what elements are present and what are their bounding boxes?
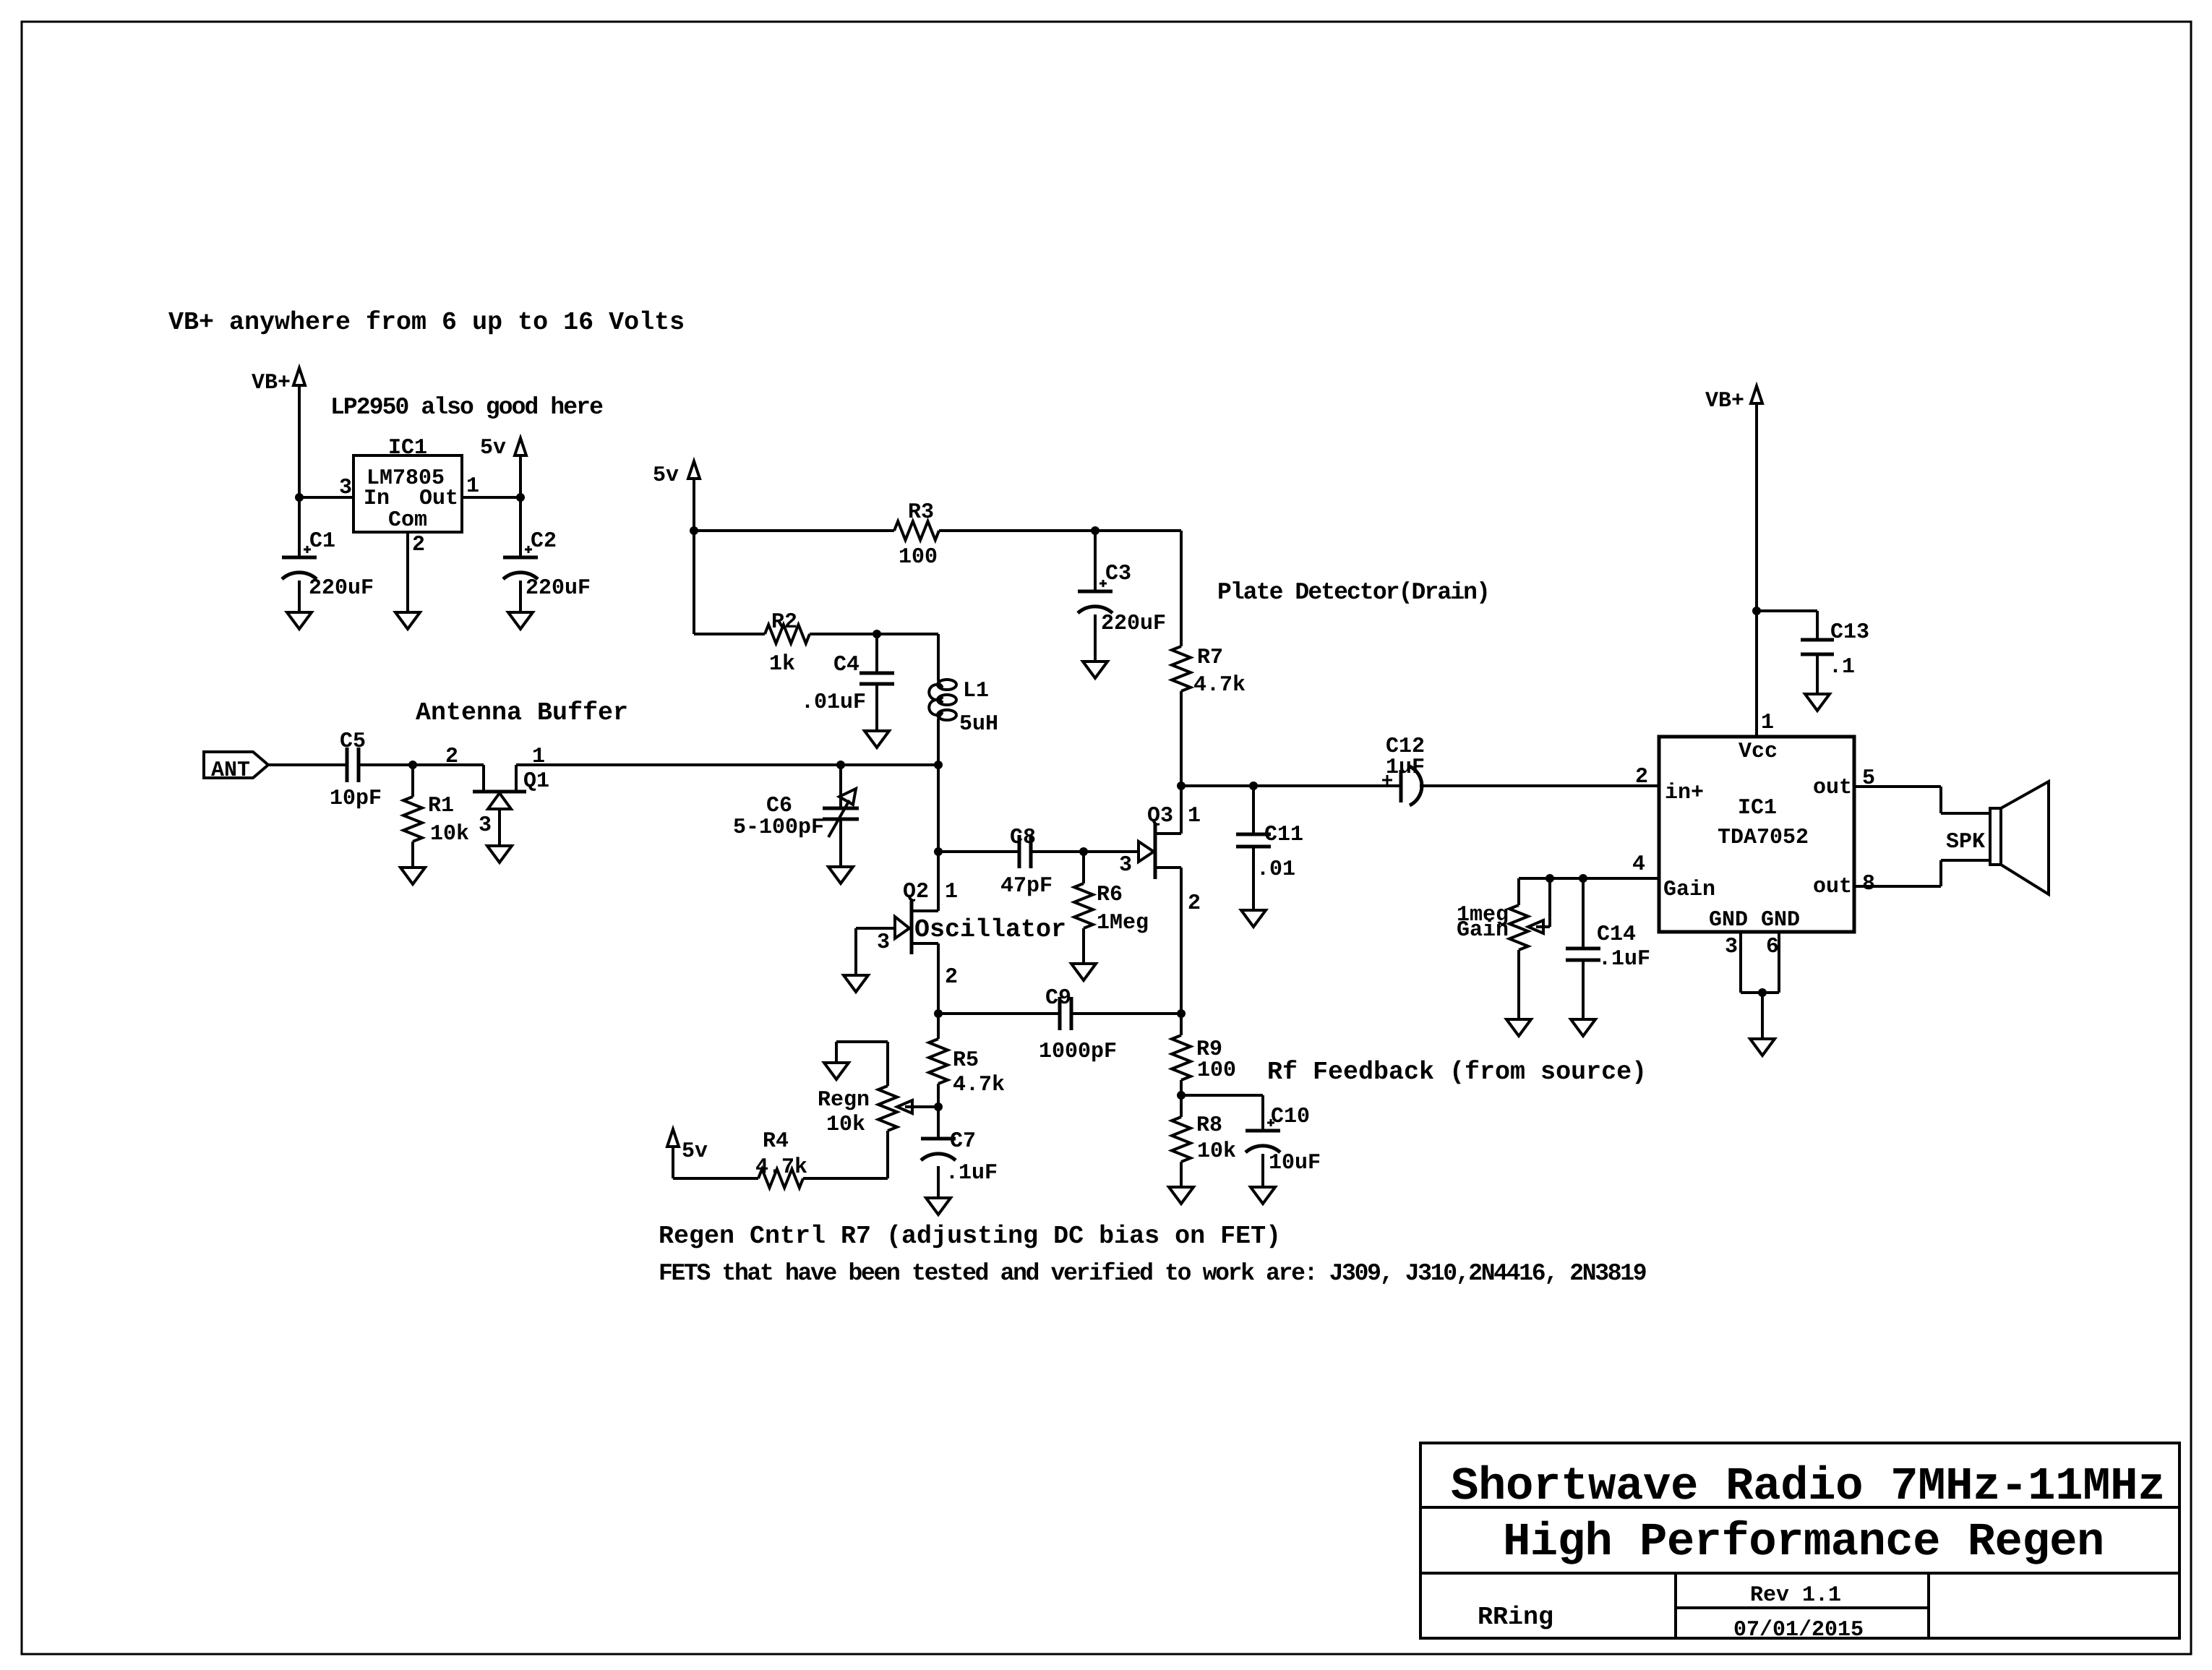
svg-text:5uH: 5uH — [959, 712, 998, 737]
svg-text:C11: C11 — [1264, 823, 1303, 847]
svg-text:LP2950 also good here: LP2950 also good here — [330, 394, 603, 421]
wire Q2 drain node to C8 — [938, 850, 1019, 853]
svg-text:Gain: Gain — [1457, 918, 1509, 943]
node: L1 / Q2 junction — [934, 761, 943, 769]
title block divider line 1 — [1420, 1506, 2179, 1509]
node: R8 / C10 junction — [1177, 1091, 1186, 1100]
node: R1 junction — [408, 761, 417, 769]
speaker SPK — [1990, 808, 2001, 865]
node: C3 junction — [1091, 526, 1099, 535]
power flag VB+ (regulator input) — [293, 368, 305, 385]
node: R6 junction — [1079, 847, 1088, 856]
wire out5 to speaker — [1854, 785, 1941, 788]
svg-text:5v: 5v — [682, 1139, 708, 1164]
wire Gain pin to pot/C14 — [1519, 877, 1659, 880]
svg-text:in+: in+ — [1665, 781, 1704, 805]
node: C13 junction — [1752, 607, 1761, 615]
svg-text:R6: R6 — [1097, 883, 1123, 907]
svg-text:5-100pF: 5-100pF — [733, 815, 824, 840]
svg-text:.1uF: .1uF — [946, 1161, 998, 1186]
svg-text:GND GND: GND GND — [1709, 908, 1800, 933]
svg-text:8: 8 — [1862, 872, 1875, 896]
wire C9 to R9 node — [1071, 1012, 1181, 1015]
capacitor C7 .1uF — [937, 1107, 940, 1139]
resistor R9 100 — [1180, 1014, 1183, 1035]
svg-text:.01: .01 — [1256, 857, 1295, 882]
ground below C14 — [1571, 1019, 1595, 1036]
svg-text:47pF: 47pF — [1000, 874, 1053, 899]
svg-text:C5: C5 — [340, 729, 366, 754]
node: wiper junction — [1546, 874, 1554, 883]
svg-text:Regen Cntrl R7 (adjusting DC b: Regen Cntrl R7 (adjusting DC bias on FET… — [659, 1222, 1281, 1251]
svg-text:C9: C9 — [1045, 986, 1071, 1011]
transistor Q1 — [482, 765, 485, 792]
svg-text:2: 2 — [445, 745, 458, 769]
svg-text:R7: R7 — [1197, 646, 1223, 670]
svg-text:6: 6 — [1766, 935, 1779, 959]
node: R9 top junction — [1177, 1009, 1186, 1018]
node: 5v rail junction — [690, 526, 698, 535]
ground below C1 — [287, 612, 312, 629]
potentiometer Regn 10k — [878, 1086, 897, 1131]
svg-text:R3: R3 — [908, 500, 934, 525]
svg-text:VB+: VB+ — [252, 371, 291, 395]
svg-text:07/01/2015: 07/01/2015 — [1733, 1618, 1864, 1643]
ground below R8 — [1169, 1187, 1193, 1204]
ground above Regn pot — [824, 1063, 849, 1079]
ground below R1 — [400, 868, 425, 884]
capacitor C8 47pF — [1018, 835, 1021, 868]
wire regulator Out to 5v node — [462, 496, 520, 499]
transistor Q2 — [910, 901, 914, 954]
node: Q2 source junction — [934, 1009, 943, 1018]
svg-text:IC1: IC1 — [388, 436, 427, 461]
node: Q2 gate / C8 junction — [934, 847, 943, 856]
svg-text:VB+: VB+ — [1705, 389, 1744, 414]
svg-text:Q1: Q1 — [523, 769, 549, 794]
svg-text:R5: R5 — [953, 1048, 979, 1073]
svg-text:SPK: SPK — [1946, 830, 1985, 855]
svg-text:RRing: RRing — [1478, 1603, 1553, 1632]
svg-text:100: 100 — [899, 545, 938, 570]
op-amp IC1 TDA7052 box — [1659, 737, 1854, 932]
svg-text:Shortwave Radio 7MHz-11MHz: Shortwave Radio 7MHz-11MHz — [1451, 1461, 2165, 1513]
svg-text:L1: L1 — [963, 679, 989, 703]
capacitor C4 .01uF — [875, 634, 878, 673]
wire C3 node to R7 top — [1095, 529, 1181, 532]
svg-text:Rf Feedback (from source): Rf Feedback (from source) — [1267, 1058, 1647, 1087]
svg-text:2: 2 — [1188, 891, 1201, 916]
svg-text:Q3: Q3 — [1147, 804, 1173, 828]
ground below C3 — [1083, 661, 1107, 678]
wire 5v down to R2 — [694, 633, 765, 635]
svg-text:Q2: Q2 — [903, 880, 929, 904]
node: C11 junction — [1249, 782, 1258, 790]
wire C12 to IC1 in+ — [1420, 784, 1659, 787]
svg-text:Antenna Buffer: Antenna Buffer — [416, 698, 628, 727]
wire C5 to Q1 gate — [359, 763, 484, 766]
title block vertical divider left — [1674, 1573, 1677, 1638]
wire Q2 source to C9 — [938, 1012, 1060, 1015]
ground below Q2 gate — [844, 975, 868, 992]
svg-text:1: 1 — [1761, 711, 1774, 735]
svg-text:3: 3 — [339, 476, 352, 500]
svg-text:10uF: 10uF — [1269, 1151, 1321, 1176]
svg-text:C13: C13 — [1830, 620, 1869, 645]
svg-text:VB+ anywhere from 6 up to 16 V: VB+ anywhere from 6 up to 16 Volts — [168, 308, 685, 337]
resistor R5 4.7k — [937, 1014, 940, 1039]
svg-text:Out: Out — [419, 487, 458, 511]
capacitor C12 1uF (coupling) — [1399, 770, 1403, 802]
svg-text:R2: R2 — [771, 610, 797, 635]
svg-text:IC1: IC1 — [1738, 796, 1777, 821]
svg-text:5: 5 — [1862, 766, 1875, 791]
wire R3 to C3 node — [939, 529, 1095, 532]
svg-text:C1: C1 — [309, 529, 335, 554]
svg-text:R1: R1 — [428, 794, 454, 818]
svg-text:TDA7052: TDA7052 — [1718, 826, 1809, 850]
svg-text:C3: C3 — [1105, 562, 1131, 586]
svg-text:1k: 1k — [769, 652, 795, 677]
capacitor C14 .1uF — [1582, 878, 1585, 949]
ground below C7 — [926, 1198, 951, 1215]
svg-text:out: out — [1813, 776, 1852, 800]
svg-text:5v: 5v — [480, 436, 506, 461]
svg-text:3: 3 — [479, 813, 492, 838]
svg-text:.1: .1 — [1829, 655, 1855, 680]
node: regulator output junction — [516, 493, 525, 502]
ground below Com pin — [395, 612, 420, 629]
wire node to C10 — [1181, 1094, 1263, 1097]
svg-text:FETS that have been tested and: FETS that have been tested and verified … — [659, 1260, 1646, 1287]
svg-text:C8: C8 — [1010, 826, 1036, 850]
svg-text:Regn: Regn — [818, 1088, 870, 1113]
svg-text:C4: C4 — [833, 653, 859, 677]
svg-text:C7: C7 — [950, 1129, 976, 1154]
svg-text:10k: 10k — [430, 822, 469, 847]
svg-text:C2: C2 — [531, 529, 557, 554]
svg-text:Rev 1.1: Rev 1.1 — [1750, 1583, 1841, 1608]
resistor R4 4.7k — [758, 1169, 803, 1188]
svg-text:4.7k: 4.7k — [755, 1155, 807, 1180]
ground below Q1 source — [487, 846, 512, 862]
capacitor C10 10uF — [1246, 1129, 1280, 1133]
capacitor C3 220uF — [1094, 531, 1097, 591]
resistor R1 10k — [411, 765, 414, 797]
svg-text:1: 1 — [1188, 804, 1201, 828]
resistor R6 1Meg — [1082, 852, 1085, 883]
power flag 5v (regen bias) — [667, 1129, 679, 1147]
ground below R6 — [1071, 964, 1096, 980]
svg-text:10k: 10k — [826, 1113, 865, 1137]
svg-text:1uF: 1uF — [1386, 755, 1425, 780]
svg-text:3: 3 — [1119, 853, 1132, 878]
node: C4 junction — [873, 630, 881, 638]
node: R5 / wiper / C7 junction — [934, 1102, 943, 1111]
ground below C2 — [508, 612, 533, 629]
ground below C6 — [828, 867, 853, 883]
ground below C13 — [1805, 694, 1830, 711]
resistor R3 100 — [894, 521, 939, 540]
svg-text:C10: C10 — [1271, 1105, 1310, 1129]
svg-text:10pF: 10pF — [330, 787, 382, 811]
ground below Gain pot — [1506, 1019, 1531, 1036]
svg-text:C14: C14 — [1597, 922, 1636, 947]
svg-text:1Meg: 1Meg — [1097, 911, 1149, 935]
svg-text:3: 3 — [1725, 935, 1738, 959]
svg-text:High Performance Regen: High Performance Regen — [1503, 1517, 2104, 1569]
resistor R8 10k — [1180, 1095, 1183, 1117]
transistor Q3 — [1154, 824, 1157, 879]
ground below IC1 amp — [1750, 1039, 1775, 1055]
wire out8 to speaker — [1854, 885, 1941, 888]
svg-text:1000pF: 1000pF — [1039, 1040, 1117, 1064]
svg-text:out: out — [1813, 875, 1852, 899]
power flag 5v (oscillator supply) — [688, 461, 700, 479]
node: GND junction — [1758, 988, 1767, 997]
capacitor C13 .1 — [1801, 638, 1834, 642]
wire C8 to R6/Q3 gate — [1031, 850, 1139, 853]
capacitor C1 220uF — [298, 497, 301, 557]
svg-text:R8: R8 — [1196, 1113, 1222, 1138]
svg-text:100: 100 — [1197, 1058, 1236, 1083]
wire ANT to C5 — [268, 763, 347, 766]
svg-text:2: 2 — [945, 965, 958, 990]
wire IC GND pins to ground — [1739, 932, 1742, 993]
svg-text:5v: 5v — [653, 463, 679, 488]
wire VB+ node to C13 — [1757, 609, 1817, 612]
resistor R2 1k — [765, 625, 810, 643]
svg-text:220uF: 220uF — [1101, 612, 1166, 636]
svg-text:4.7k: 4.7k — [953, 1073, 1005, 1097]
svg-text:2: 2 — [1635, 765, 1648, 789]
node: regulator input junction — [295, 493, 304, 502]
svg-text:In: In — [364, 487, 390, 511]
svg-text:4: 4 — [1632, 852, 1645, 877]
node: plate detector node — [1177, 782, 1186, 790]
svg-text:220uF: 220uF — [309, 576, 374, 601]
svg-text:3: 3 — [877, 930, 890, 955]
svg-text:1: 1 — [466, 474, 479, 499]
node: C14 junction — [1579, 874, 1587, 883]
svg-text:R4: R4 — [763, 1129, 789, 1154]
title block frame — [1420, 1443, 2179, 1638]
wire down to L1 top — [937, 634, 940, 680]
wire R2 to C4 node — [810, 633, 938, 635]
capacitor C2 220uF — [519, 497, 522, 557]
node: C6 junction on main wire — [836, 761, 845, 769]
title block vertical divider right — [1927, 1573, 1930, 1638]
power flag 5v (regulator output) — [515, 438, 526, 455]
inductor L1 5uH — [938, 680, 956, 690]
voltage regulator IC1 LM7805 box — [353, 455, 462, 532]
wire 5v to R4 — [673, 1177, 758, 1180]
wire VB+ to IC1 regulator In pin — [299, 496, 353, 499]
ground below C11 — [1241, 910, 1266, 927]
port ANT connector — [204, 752, 268, 778]
svg-text:220uF: 220uF — [526, 576, 591, 601]
ground below C10 — [1251, 1187, 1275, 1204]
ground below C4 — [865, 731, 889, 748]
capacitor C5 10pF — [346, 748, 349, 782]
wire regulator Com pin 2 to ground — [406, 532, 409, 612]
capacitor C11 .01 — [1252, 786, 1255, 834]
svg-text:Oscillator: Oscillator — [914, 915, 1066, 944]
svg-text:.01uF: .01uF — [801, 690, 866, 715]
svg-text:Com: Com — [388, 508, 427, 533]
power flag VB+ (amplifier supply) — [1751, 386, 1762, 403]
wire Q1 drain along main node — [516, 763, 841, 766]
svg-text:Gain: Gain — [1663, 878, 1715, 902]
svg-text:2: 2 — [412, 533, 425, 557]
svg-text:4.7k: 4.7k — [1193, 673, 1246, 698]
svg-text:10k: 10k — [1197, 1139, 1236, 1164]
svg-text:C6: C6 — [766, 794, 792, 818]
variable capacitor C6 5-100pF — [839, 765, 842, 808]
svg-text:.1uF: .1uF — [1598, 947, 1650, 972]
title block rev/date divider — [1676, 1606, 1929, 1609]
resistor R7 4.7k — [1172, 646, 1191, 691]
potentiometer Gain 1meg — [1517, 878, 1520, 905]
svg-text:ANT: ANT — [211, 758, 250, 783]
capacitor C9 1000pF — [1058, 997, 1062, 1030]
svg-text:1: 1 — [945, 880, 958, 904]
wire plate node to C11 — [1181, 784, 1401, 787]
wire main node to L1 bottom — [841, 763, 938, 766]
svg-text:Plate Detector(Drain): Plate Detector(Drain) — [1217, 579, 1489, 606]
wire R4 to Regn pot — [803, 1177, 888, 1180]
title block divider line 2 — [1420, 1572, 2179, 1575]
svg-text:Vcc: Vcc — [1739, 740, 1778, 764]
wire 5v to R3 — [694, 529, 894, 532]
